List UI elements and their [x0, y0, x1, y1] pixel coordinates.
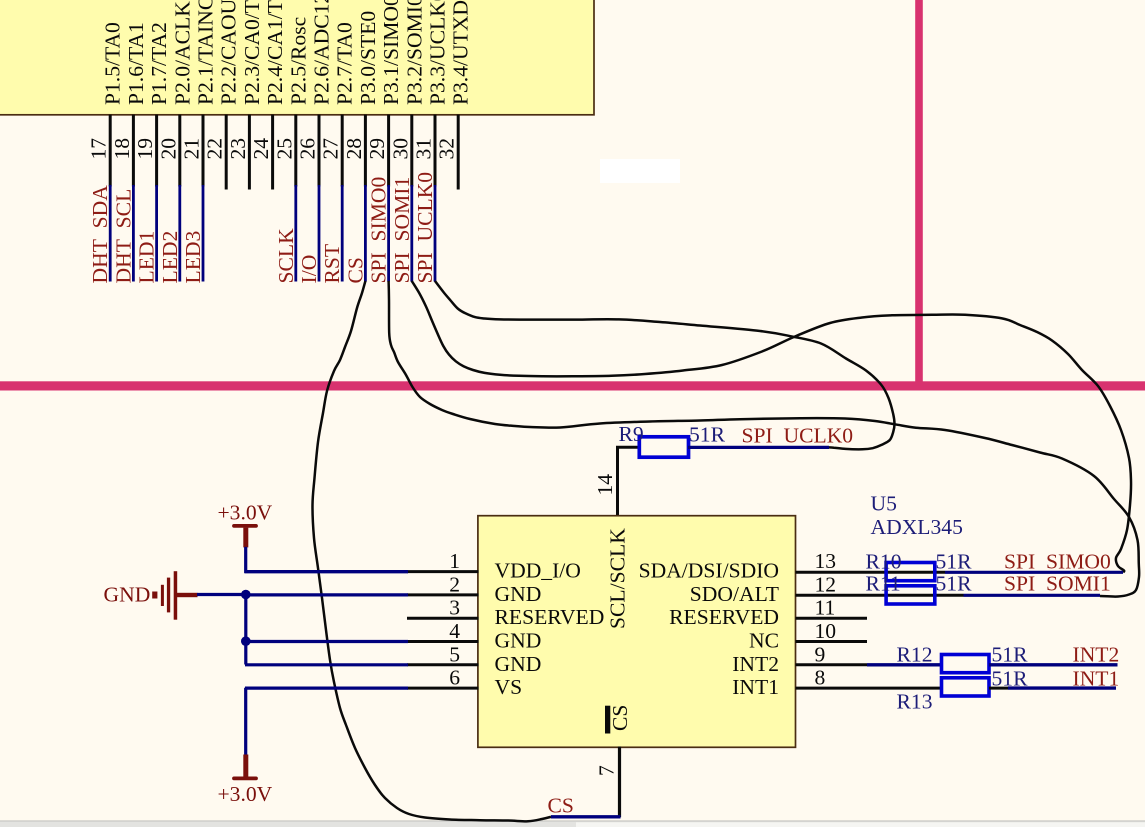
- svg-text:GND: GND: [104, 583, 151, 607]
- pin 26 stub wire: [318, 115, 321, 187]
- junction dot A: [241, 590, 251, 600]
- svg-text:22: 22: [203, 138, 227, 160]
- pin 1 stub: [407, 570, 479, 573]
- pin 3 stub: [407, 617, 479, 620]
- wire pin6 to +3.0V: [244, 688, 247, 756]
- GND stem: [177, 593, 198, 597]
- svg-text:SPI SOMI1: SPI SOMI1: [1004, 572, 1111, 596]
- chip U5 body: [478, 516, 796, 748]
- sheet bottom right strip: [576, 822, 1145, 827]
- MCU component body (partial, top-left): [0, 0, 594, 115]
- GND bar 1: [161, 585, 164, 606]
- wire pin13 navy (SPI_SIMO0): [945, 571, 1123, 574]
- svg-text:INT2: INT2: [732, 652, 779, 676]
- svg-text:2: 2: [449, 572, 460, 596]
- wire GND to junction: [197, 593, 246, 596]
- svg-text:P2.1/TAINCLK: P2.1/TAINCLK: [194, 0, 218, 105]
- power +3.0V bottom bar: [234, 777, 256, 781]
- pin 6 stub: [407, 687, 479, 690]
- svg-text:21: 21: [180, 138, 204, 160]
- sheet bottom gray strip: [0, 820, 1145, 827]
- power +3.0V top bar: [234, 524, 256, 528]
- svg-text:SCLK: SCLK: [274, 228, 298, 284]
- svg-text:17: 17: [87, 138, 111, 160]
- wire from pin 29 (curved, to SPI_SOMI1 resistor line): [389, 281, 1140, 597]
- svg-text:12: 12: [815, 572, 837, 596]
- wire pin 30: [410, 185, 413, 282]
- svg-text:P3.3/UCLK0: P3.3/UCLK0: [426, 0, 450, 105]
- svg-text:RST: RST: [320, 244, 344, 284]
- svg-text:SPI SIMO0: SPI SIMO0: [1004, 550, 1111, 574]
- wire pin12 navy (SPI_SOMI1): [964, 594, 1101, 597]
- svg-text:P3.0/STE0: P3.0/STE0: [356, 11, 380, 105]
- svg-text:8: 8: [815, 666, 826, 690]
- pin 29 stub wire: [387, 115, 390, 187]
- svg-text:GND: GND: [495, 652, 542, 676]
- pin 21 stub wire: [202, 115, 205, 187]
- svg-text:R10: R10: [866, 550, 902, 574]
- wire pin 27: [341, 185, 344, 282]
- power +3.0V bottom stub: [243, 755, 248, 779]
- svg-text:P1.5/TA0: P1.5/TA0: [101, 22, 125, 105]
- wire +3.0V to pin1: [246, 547, 408, 572]
- svg-text:7: 7: [595, 765, 619, 776]
- svg-text:LED3: LED3: [181, 231, 205, 284]
- svg-text:SPI UCLK0: SPI UCLK0: [742, 424, 854, 448]
- svg-text:23: 23: [226, 138, 250, 160]
- svg-text:11: 11: [815, 596, 836, 620]
- svg-text:NC: NC: [749, 629, 779, 653]
- svg-text:P3.1/SIMO0: P3.1/SIMO0: [379, 0, 403, 105]
- svg-text:R9: R9: [619, 422, 644, 446]
- wire pin 26: [318, 185, 321, 282]
- svg-text:10: 10: [815, 619, 837, 643]
- wire R9 right (net SPI_UCLK0): [688, 446, 829, 449]
- svg-text:30: 30: [388, 138, 412, 160]
- wire pin 29: [387, 185, 390, 282]
- svg-text:LED2: LED2: [158, 231, 182, 284]
- horizontal pink border bar: [0, 381, 1145, 390]
- svg-text:P1.7/TA2: P1.7/TA2: [147, 22, 171, 105]
- pin 24 stub wire: [271, 115, 274, 190]
- svg-text:P3.4/UTXD: P3.4/UTXD: [449, 0, 473, 105]
- pin 27 stub wire: [341, 115, 344, 187]
- svg-text:4: 4: [449, 619, 460, 643]
- pin 19 stub wire: [155, 115, 158, 187]
- pin 25 stub wire: [294, 115, 297, 187]
- pin 20 stub wire: [178, 115, 181, 187]
- GND bar 3: [174, 571, 178, 620]
- junction dot B: [241, 636, 251, 646]
- svg-text:GND: GND: [495, 629, 542, 653]
- resistor R10: [886, 563, 935, 581]
- wire pin12 black: [796, 594, 964, 597]
- svg-text:SDA/DSI/SDIO: SDA/DSI/SDIO: [639, 559, 779, 583]
- sheet bottom edge line: [0, 820, 1145, 822]
- wire pin8 black: [796, 687, 943, 690]
- wire pin 21: [202, 185, 205, 282]
- svg-text:VDD_I/O: VDD_I/O: [495, 559, 581, 583]
- pin 5 stub: [407, 663, 479, 666]
- wire pin 31: [434, 185, 437, 282]
- power +3.0V top stub: [243, 528, 248, 548]
- svg-text:DHT SCL: DHT SCL: [111, 189, 135, 284]
- wire R9 left: [616, 446, 641, 449]
- pin 11 stub: [796, 617, 868, 620]
- svg-text:+3.0V: +3.0V: [218, 782, 273, 806]
- svg-text:INT1: INT1: [1073, 667, 1120, 691]
- wire pin7 vertical: [618, 747, 621, 818]
- svg-text:P2.0/ACLK: P2.0/ACLK: [170, 1, 194, 105]
- svg-text:R12: R12: [897, 643, 933, 667]
- svg-text:+3.0V: +3.0V: [218, 501, 273, 525]
- wire pin14 vertical: [616, 447, 619, 516]
- svg-text:SPI SIMO0: SPI SIMO0: [367, 177, 391, 284]
- wire to pin 6: [245, 686, 408, 689]
- svg-text:GND: GND: [495, 582, 542, 606]
- svg-text:P2.6/ADC12: P2.6/ADC12: [310, 0, 334, 105]
- svg-text:ADXL345: ADXL345: [871, 515, 963, 539]
- wire pin 18: [132, 185, 135, 282]
- wire to pin 5: [245, 663, 408, 666]
- wire pin9 navy left: [867, 663, 942, 666]
- svg-text:R11: R11: [866, 572, 901, 596]
- pin 18 stub wire: [132, 115, 135, 187]
- GND bar 2: [167, 578, 170, 613]
- svg-text:1: 1: [449, 549, 460, 573]
- svg-text:VS: VS: [495, 675, 523, 699]
- wire pin8 black right: [989, 687, 1008, 690]
- wire pin 19: [155, 185, 158, 282]
- svg-text:27: 27: [319, 138, 343, 160]
- wire pin 17: [109, 185, 112, 282]
- svg-text:18: 18: [110, 138, 134, 160]
- pin 17 stub wire: [109, 115, 112, 187]
- pin 31 stub wire: [434, 115, 437, 187]
- svg-text:RESERVED: RESERVED: [495, 605, 605, 629]
- CS overline bar: [605, 706, 610, 734]
- svg-text:DHT SDA: DHT SDA: [88, 185, 112, 284]
- svg-text:P2.2/CAOUT/: P2.2/CAOUT/: [217, 0, 241, 105]
- svg-text:SCL/SCLK: SCL/SCLK: [606, 528, 630, 629]
- svg-text:INT1: INT1: [732, 675, 779, 699]
- wire pin13 black: [796, 571, 946, 574]
- svg-text:SPI UCLK0: SPI UCLK0: [413, 172, 437, 284]
- pin 30 stub wire: [410, 115, 413, 187]
- resistor R12: [942, 655, 990, 673]
- svg-text:32: 32: [435, 138, 459, 160]
- vertical pink border bar: [915, 0, 923, 390]
- svg-text:INT2: INT2: [1073, 643, 1120, 667]
- wire pin9 navy right (INT2): [989, 663, 1118, 666]
- wire to pin 2: [245, 593, 408, 596]
- pin 10 stub: [796, 640, 868, 643]
- pin 28 stub wire: [364, 115, 367, 187]
- svg-text:CS: CS: [343, 257, 367, 283]
- svg-text:SDO/ALT: SDO/ALT: [690, 582, 779, 606]
- svg-text:P2.3/CA0/T: P2.3/CA0/T: [240, 0, 264, 105]
- svg-text:24: 24: [249, 138, 273, 160]
- wire pin8 navy right (INT1): [1008, 686, 1116, 689]
- svg-text:51R: 51R: [992, 667, 1029, 691]
- pin 32 stub wire: [457, 115, 460, 190]
- svg-text:19: 19: [133, 138, 157, 160]
- svg-text:P2.5/Rosc: P2.5/Rosc: [286, 17, 310, 105]
- svg-text:U5: U5: [871, 492, 897, 516]
- svg-text:20: 20: [156, 138, 180, 160]
- wire to pin 4: [245, 640, 408, 643]
- svg-text:25: 25: [272, 138, 296, 160]
- wire pin 20: [178, 185, 181, 282]
- svg-text:SPI SOMI1: SPI SOMI1: [390, 177, 414, 284]
- svg-text:26: 26: [296, 138, 320, 160]
- svg-text:9: 9: [815, 642, 826, 666]
- wire CS (curved, pin 28 to bottom CS): [312, 281, 551, 821]
- svg-text:51R: 51R: [689, 423, 726, 447]
- pin 4 stub: [407, 640, 479, 643]
- svg-text:31: 31: [412, 138, 436, 160]
- svg-text:P3.2/SOMI0: P3.2/SOMI0: [402, 0, 426, 105]
- svg-text:51R: 51R: [992, 643, 1029, 667]
- wire pin 25: [294, 185, 297, 282]
- pin 23 stub wire: [248, 115, 251, 190]
- resistor R9: [639, 437, 688, 457]
- svg-text:P2.4/CA1/T: P2.4/CA1/T: [263, 0, 287, 105]
- svg-text:29: 29: [365, 138, 389, 160]
- pin 22 stub wire: [225, 115, 228, 190]
- wire to pin 1: [245, 570, 408, 573]
- wire CS bottom navy: [551, 815, 621, 818]
- white patch: [600, 159, 680, 183]
- svg-text:51R: 51R: [936, 572, 973, 596]
- svg-text:51R: 51R: [936, 550, 973, 574]
- pin 2 stub: [407, 593, 479, 596]
- wire pin9 black: [796, 663, 868, 666]
- svg-text:P1.6/TA1: P1.6/TA1: [124, 22, 148, 105]
- svg-text:RESERVED: RESERVED: [669, 605, 779, 629]
- svg-text:3: 3: [449, 596, 460, 620]
- svg-text:6: 6: [449, 666, 460, 690]
- resistor R13: [942, 678, 990, 696]
- svg-text:I/O: I/O: [297, 255, 321, 284]
- GND square: [152, 592, 157, 599]
- svg-text:5: 5: [449, 642, 460, 666]
- svg-text:14: 14: [593, 474, 617, 496]
- wire pin 28: [364, 185, 367, 282]
- wire GND vertical: [244, 595, 247, 665]
- svg-text:28: 28: [342, 138, 366, 160]
- wire from pin 30 (curved, to SPI_SIMO0 resistor line): [412, 281, 1131, 572]
- svg-text:R13: R13: [897, 690, 933, 714]
- svg-text:CS: CS: [608, 705, 632, 731]
- wire from pin 31 (curved, to R9 SPI_UCLK0 line): [435, 281, 895, 449]
- svg-text:P2.7/TA0: P2.7/TA0: [333, 22, 357, 105]
- svg-text:LED1: LED1: [135, 231, 159, 284]
- svg-text:13: 13: [815, 549, 837, 573]
- svg-text:CS: CS: [548, 794, 574, 818]
- resistor R11: [886, 586, 935, 604]
